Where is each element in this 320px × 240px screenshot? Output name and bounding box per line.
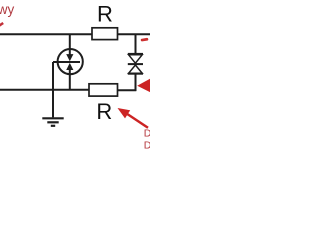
arrow down inside circle — [69, 49, 71, 55]
wire vertical to current source — [69, 34, 71, 49]
wire bottom horizontal right segment — [118, 89, 137, 91]
diode bottom bar — [128, 73, 143, 75]
wire top horizontal right segment — [118, 33, 151, 35]
diode lower triangle (points up) — [129, 65, 143, 73]
red arrow fragment top-left — [0, 23, 3, 27]
wire from circle bottom to bottom rail — [69, 74, 71, 90]
current source U1 (circle) — [58, 49, 83, 74]
red arrow pointing at diode (head only, from off-canvas) — [137, 78, 151, 92]
svg-text:wy: wy — [0, 2, 14, 17]
svg-text:R: R — [96, 99, 112, 124]
center bar of current source with left stub — [53, 61, 80, 63]
ground — [42, 117, 63, 119]
svg-text:R: R — [97, 1, 113, 26]
wire from top rail down to diodes — [135, 34, 137, 53]
svg-text:D: D — [144, 128, 150, 140]
red dash top-right — [141, 38, 149, 42]
resistor R1 (top) — [92, 28, 118, 40]
diode pair D1 (back-to-back) top bar — [128, 53, 143, 55]
wire bottom horizontal left segment — [0, 89, 89, 91]
wire top horizontal left segment — [0, 33, 92, 35]
resistor R2 (bottom) — [89, 84, 118, 96]
wire from diodes to bottom rail — [135, 74, 137, 91]
diode middle bar — [128, 63, 143, 65]
svg-text:D: D — [144, 139, 150, 150]
wire stub left of circle down to ground — [52, 62, 54, 117]
red arrow pointing at bottom resistor — [126, 113, 148, 128]
diode upper triangle (points down) — [129, 55, 143, 63]
arrow up inside circle — [69, 69, 71, 74]
